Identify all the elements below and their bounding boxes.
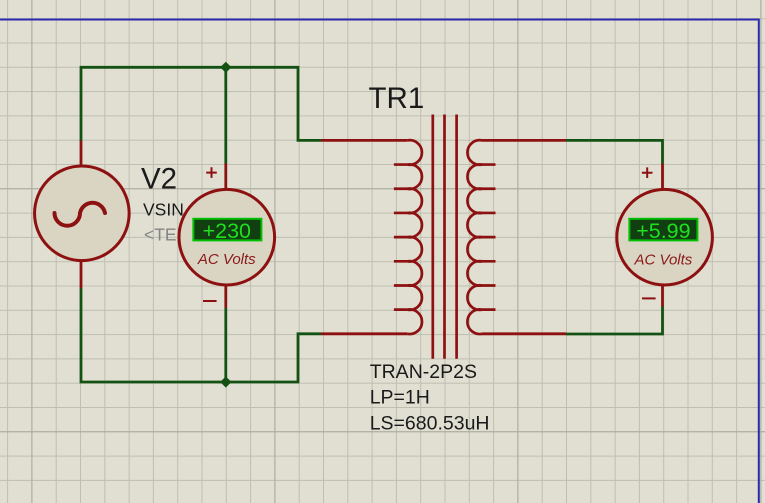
transformer TR1 secondary pin top (482, 139, 566, 142)
voltmeter VM2 plus mark (642, 167, 653, 178)
voltmeter VM2 display (629, 219, 697, 241)
svg-text:TR1: TR1 (369, 82, 425, 115)
svg-text:V2: V2 (141, 163, 177, 196)
node junction bottom (220, 376, 231, 387)
node junction top (220, 62, 231, 73)
source V2 sine symbol (55, 203, 106, 226)
wire junction to voltmeter V1 plus (224, 67, 227, 163)
pin stub V2 top (80, 141, 83, 166)
source V2 body (35, 166, 130, 261)
wire voltmeter V1 minus to junction (224, 308, 227, 382)
pin stub V2 bottom (80, 261, 83, 289)
voltmeter VM1 plus mark (206, 167, 217, 178)
transformer TR1 secondary winding (467, 140, 482, 334)
wire top net: V2 top to junction to transformer primary top (81, 67, 321, 141)
wire secondary bottom to voltmeter V2 minus (566, 306, 663, 334)
svg-text:LP=1H: LP=1H (370, 387, 430, 409)
transformer TR1 secondary pin bottom (482, 332, 566, 335)
transformer TR1 core (433, 115, 457, 359)
voltmeter VM2 body (617, 189, 713, 285)
transformer TR1 primary winding taps (394, 165, 408, 310)
pin stub voltmeter1 top (224, 163, 227, 191)
transformer TR1 primary pin top (321, 139, 407, 142)
transformer TR1 primary winding (407, 140, 422, 334)
svg-text:+230: +230 (203, 219, 251, 243)
voltmeter VM1 display (193, 219, 261, 241)
voltmeter VM1 body (179, 189, 275, 285)
svg-text:+5.99: +5.99 (636, 219, 690, 243)
svg-text:LS=680.53uH: LS=680.53uH (370, 413, 490, 435)
voltmeter VM1 minus mark (203, 300, 217, 302)
svg-text:AC Volts: AC Volts (197, 251, 256, 268)
svg-text:VSIN: VSIN (143, 199, 184, 219)
pin stub voltmeter2 bottom (661, 284, 664, 307)
wire bottom net: V2 bottom to junction to transformer primary bottom (81, 288, 321, 382)
transformer TR1 primary pin bottom (321, 332, 407, 335)
svg-text:TRAN-2P2S: TRAN-2P2S (370, 361, 477, 383)
wire secondary top to voltmeter V2 plus (566, 140, 663, 163)
transformer TR1 secondary winding taps (482, 165, 496, 310)
pin stub voltmeter1 bottom (224, 284, 227, 308)
voltmeter VM2 minus mark (642, 297, 656, 299)
pin stub voltmeter2 top (661, 164, 664, 192)
svg-text:AC Volts: AC Volts (634, 252, 693, 269)
